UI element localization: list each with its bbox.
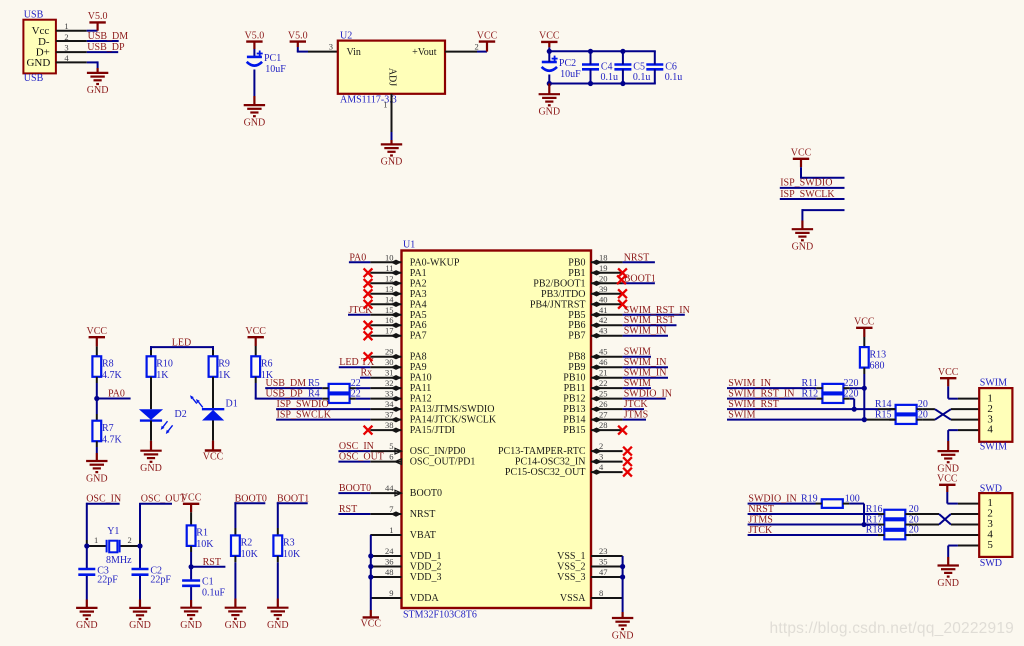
svg-text:PB15: PB15 bbox=[563, 425, 585, 436]
svg-text:RST: RST bbox=[339, 504, 357, 515]
ground (ISP) bbox=[792, 229, 814, 252]
svg-text:10: 10 bbox=[385, 252, 394, 262]
svg-text:USB_DM: USB_DM bbox=[88, 31, 129, 42]
resistor R1 10K bbox=[187, 525, 215, 550]
no-ERC mark bbox=[364, 268, 373, 277]
capacitor C4 0.1u bbox=[582, 62, 618, 83]
svg-text:SWIM_RST: SWIM_RST bbox=[624, 315, 675, 326]
junction bbox=[588, 49, 593, 54]
resistor R11 220 bbox=[802, 378, 859, 393]
no-ERC mark bbox=[364, 300, 373, 309]
svg-text:34: 34 bbox=[385, 399, 394, 409]
wire top rail bbox=[548, 50, 656, 52]
svg-text:GND: GND bbox=[612, 630, 634, 641]
svg-text:USB_DP: USB_DP bbox=[87, 42, 125, 53]
U1 pin 10 (PA0-WKUP) bbox=[370, 252, 460, 268]
net JTCK (to R18) bbox=[748, 525, 879, 536]
svg-text:VCC: VCC bbox=[938, 367, 959, 378]
junction bbox=[620, 81, 625, 86]
svg-text:OSC_OUT/PD1: OSC_OUT/PD1 bbox=[410, 457, 476, 468]
net SWIM_IN bbox=[623, 357, 668, 368]
svg-text:14: 14 bbox=[385, 294, 394, 304]
svg-text:21: 21 bbox=[599, 368, 608, 378]
ground (U1 VSS) bbox=[612, 618, 634, 641]
wire VCC to R1 bbox=[190, 504, 192, 526]
svg-text:PA4: PA4 bbox=[410, 299, 427, 310]
wire rail to R9 bbox=[212, 346, 214, 356]
svg-text:VCC: VCC bbox=[937, 474, 958, 485]
svg-text:4: 4 bbox=[987, 424, 993, 436]
U1 pin 29 (PA8) bbox=[370, 347, 426, 363]
svg-text:SWDIO_IN: SWDIO_IN bbox=[748, 493, 796, 504]
svg-text:JTMS: JTMS bbox=[748, 514, 772, 525]
svg-text:D1: D1 bbox=[226, 399, 238, 410]
U1 pin 37 (PA14/JTCK/SWCLK) bbox=[370, 410, 497, 426]
net SWIM_IN bbox=[623, 368, 668, 379]
net LED (rail) bbox=[150, 337, 214, 348]
svg-text:48: 48 bbox=[385, 567, 394, 577]
svg-text:BOOT0: BOOT0 bbox=[410, 488, 442, 499]
wire VCC stem to rail bbox=[548, 42, 550, 51]
resistor R2 10K bbox=[231, 535, 259, 560]
wire R17 out bbox=[912, 524, 939, 526]
svg-text:VCC: VCC bbox=[181, 493, 202, 504]
wire to SWD pin2 bbox=[951, 513, 979, 515]
junction bbox=[862, 417, 867, 422]
U1 pin 31 (PA10) bbox=[370, 368, 431, 384]
wire crystal pin1 bbox=[87, 545, 107, 547]
U1 pin 42 (PB6) bbox=[568, 315, 622, 331]
wire rail to GND bbox=[548, 84, 550, 95]
svg-text:R17: R17 bbox=[866, 514, 883, 525]
wire V5.0 to U2 pin3 bbox=[297, 42, 338, 52]
U1 pin 38 (PA15/JTDI) bbox=[370, 420, 455, 436]
svg-text:10K: 10K bbox=[241, 549, 259, 560]
svg-text:VDD_1: VDD_1 bbox=[410, 551, 442, 562]
wire C1 to GND bbox=[190, 587, 192, 608]
svg-text:+Vout: +Vout bbox=[412, 47, 437, 58]
svg-text:47: 47 bbox=[599, 567, 608, 577]
ground (C3) bbox=[76, 608, 98, 631]
junction bbox=[861, 522, 866, 527]
svg-text:SWIM: SWIM bbox=[980, 377, 1007, 388]
svg-text:GND: GND bbox=[76, 620, 98, 631]
U1 pin 28 (PB15) bbox=[563, 420, 622, 436]
svg-text:PA6: PA6 bbox=[410, 320, 427, 331]
resistor R14 20 bbox=[875, 399, 928, 414]
svg-text:VCC: VCC bbox=[87, 326, 108, 337]
U1 pin 8 (VSSA) bbox=[560, 588, 623, 604]
ground (USB) bbox=[87, 73, 109, 96]
svg-text:R7: R7 bbox=[102, 423, 114, 434]
wire OSC_OUT down bbox=[139, 503, 141, 546]
svg-text:27: 27 bbox=[599, 410, 608, 420]
ground (SWD) bbox=[937, 566, 959, 589]
svg-text:PA0-WKUP: PA0-WKUP bbox=[410, 257, 460, 268]
svg-text:R16: R16 bbox=[866, 504, 883, 515]
svg-text:VSS_1: VSS_1 bbox=[557, 551, 585, 562]
svg-text:GND: GND bbox=[538, 107, 560, 118]
junction bbox=[189, 564, 194, 569]
U1 pin 33 (PA12) bbox=[370, 389, 431, 405]
svg-text:U2: U2 bbox=[340, 31, 352, 42]
svg-text:32: 32 bbox=[385, 378, 394, 388]
svg-text:C1: C1 bbox=[202, 577, 214, 588]
wire R5 to pin 32 bbox=[356, 387, 370, 389]
svg-text:NRST: NRST bbox=[410, 509, 436, 520]
svg-text:SWIM_IN: SWIM_IN bbox=[624, 326, 667, 337]
power VCC (SWIM) bbox=[938, 367, 959, 378]
power V5.0 (U2 input) bbox=[288, 30, 308, 41]
svg-text:8: 8 bbox=[599, 588, 603, 598]
wire OSC_IN down bbox=[86, 503, 88, 546]
net SWIM_IN bbox=[623, 326, 668, 337]
wire to SWIM pin3 bbox=[951, 419, 979, 421]
wire C5 leads bbox=[622, 51, 624, 83]
connector SWD (5-pin) bbox=[979, 483, 1012, 569]
net ISP_SWDIO (U1) bbox=[276, 399, 370, 410]
svg-text:GND: GND bbox=[129, 620, 151, 631]
svg-text:JTMS: JTMS bbox=[624, 410, 648, 421]
resistor R6 1K bbox=[251, 356, 274, 381]
svg-text:PA15/JTDI: PA15/JTDI bbox=[410, 425, 455, 436]
net JTMS bbox=[623, 410, 649, 421]
wire VCC to R8 bbox=[96, 337, 98, 356]
svg-text:OSC_OUT: OSC_OUT bbox=[339, 452, 384, 463]
svg-text:D2: D2 bbox=[175, 409, 187, 420]
svg-text:USB: USB bbox=[24, 10, 44, 21]
net ISP_SWCLK (U1) bbox=[276, 410, 370, 421]
svg-text:VCC: VCC bbox=[539, 31, 560, 42]
svg-text:SWD: SWD bbox=[980, 558, 1002, 569]
junction bbox=[368, 553, 373, 558]
svg-text:22pF: 22pF bbox=[150, 575, 171, 586]
net RST bbox=[191, 557, 225, 568]
wire to SWIM pin2 bbox=[951, 408, 979, 410]
svg-text:0.1u: 0.1u bbox=[665, 72, 683, 83]
svg-text:2: 2 bbox=[128, 535, 132, 545]
svg-text:R1: R1 bbox=[196, 528, 208, 539]
svg-text:35: 35 bbox=[599, 557, 608, 567]
svg-text:R15: R15 bbox=[875, 409, 892, 420]
svg-text:SWDIO_IN: SWDIO_IN bbox=[624, 389, 672, 400]
svg-text:VSSA: VSSA bbox=[560, 593, 586, 604]
resistor R8 4.7K bbox=[92, 356, 122, 381]
svg-text:43: 43 bbox=[599, 326, 608, 336]
net ISP_SWDIO bbox=[780, 178, 845, 189]
svg-text:PC13-TAMPER-RTC: PC13-TAMPER-RTC bbox=[498, 446, 586, 457]
junction bbox=[620, 49, 625, 54]
junction bbox=[862, 386, 867, 391]
svg-text:PB4/JNTRST: PB4/JNTRST bbox=[530, 299, 586, 310]
svg-text:NRST: NRST bbox=[624, 252, 650, 263]
U1 pin 15 (PA5) bbox=[370, 305, 426, 321]
U1 pin 32 (PA11) bbox=[370, 378, 431, 394]
svg-text:R9: R9 bbox=[218, 359, 230, 370]
svg-text:6: 6 bbox=[389, 452, 393, 462]
svg-text:GND: GND bbox=[244, 117, 266, 128]
svg-text:SWIM: SWIM bbox=[624, 347, 651, 358]
U1 pin 39 (PB3/JTDO) bbox=[541, 284, 623, 300]
wire PC2 top bbox=[548, 51, 550, 62]
ground (D2) bbox=[140, 451, 162, 474]
svg-text:3: 3 bbox=[64, 43, 68, 53]
svg-text:31: 31 bbox=[385, 368, 394, 378]
svg-text:0.1uF: 0.1uF bbox=[202, 587, 226, 598]
svg-text:R6: R6 bbox=[261, 359, 273, 370]
U1 pin 48 (VDD_3) bbox=[370, 567, 441, 583]
U1 pin 23 (VSS_1) bbox=[557, 546, 622, 562]
ground (SWIM) bbox=[937, 451, 959, 474]
wire USB pin4 bbox=[56, 61, 98, 73]
svg-text:PB12: PB12 bbox=[563, 394, 585, 405]
U1 pin 27 (PB14) bbox=[563, 410, 622, 426]
svg-text:10K: 10K bbox=[283, 549, 301, 560]
svg-text:11: 11 bbox=[385, 263, 393, 273]
U1 pin 22 (PB11) bbox=[564, 378, 623, 394]
net PA0 bbox=[349, 252, 370, 263]
wire BOOT0 to R2 bbox=[234, 502, 236, 535]
junction bbox=[620, 574, 625, 579]
wire D1 to VCC bbox=[212, 421, 214, 451]
U1 pin 21 (PB10) bbox=[563, 368, 622, 384]
crystal Y1 8MHz bbox=[94, 526, 132, 566]
svg-text:23: 23 bbox=[599, 546, 608, 556]
no-ERC mark bbox=[364, 331, 373, 340]
wire R15 out bbox=[923, 419, 935, 421]
ground (cap bank) bbox=[538, 94, 560, 117]
svg-text:V5.0: V5.0 bbox=[288, 30, 308, 41]
svg-text:R14: R14 bbox=[875, 399, 892, 410]
svg-text:1: 1 bbox=[383, 100, 387, 110]
wire R18 to SWD pin4 bbox=[912, 534, 980, 536]
svg-text:VDDA: VDDA bbox=[410, 593, 440, 604]
svg-text:GND: GND bbox=[937, 578, 959, 589]
svg-text:SWIM_RST: SWIM_RST bbox=[728, 399, 779, 410]
power VCC (D1) bbox=[203, 451, 224, 463]
capacitor C2 22pF bbox=[132, 566, 172, 586]
svg-text:46: 46 bbox=[599, 357, 608, 367]
wire R10 to D2 bbox=[150, 377, 152, 409]
svg-text:37: 37 bbox=[385, 410, 394, 420]
wire to C2 bbox=[139, 546, 141, 569]
svg-text:V5.0: V5.0 bbox=[245, 30, 265, 41]
net SWIM_IN (to R11) bbox=[727, 378, 816, 389]
svg-text:8MHz: 8MHz bbox=[106, 555, 132, 566]
svg-text:10uF: 10uF bbox=[560, 69, 581, 80]
svg-text:PA3: PA3 bbox=[410, 289, 427, 300]
net SWIM_RST_IN bbox=[623, 305, 690, 316]
junction bbox=[84, 543, 89, 548]
U1 pin 47 (VSS_3) bbox=[557, 567, 622, 583]
svg-text:R12: R12 bbox=[802, 388, 819, 399]
svg-text:PB7: PB7 bbox=[568, 331, 585, 342]
svg-text:BOOT0: BOOT0 bbox=[339, 483, 371, 494]
svg-text:ADJ: ADJ bbox=[387, 68, 398, 86]
svg-text:STM32F103C8T6: STM32F103C8T6 bbox=[403, 609, 477, 620]
junction bbox=[620, 564, 625, 569]
wire USB pin1 bbox=[56, 30, 98, 32]
svg-text:GND: GND bbox=[87, 85, 109, 96]
svg-text:PA5: PA5 bbox=[410, 310, 427, 321]
power VCC (R1) bbox=[181, 493, 202, 504]
svg-text:GND: GND bbox=[86, 473, 108, 484]
connector SWIM (4-pin) bbox=[979, 377, 1012, 452]
svg-text:20: 20 bbox=[599, 273, 608, 283]
U1 pin 25 (PB12) bbox=[563, 389, 622, 405]
svg-text:R3: R3 bbox=[283, 538, 295, 549]
no-ERC mark bbox=[623, 457, 632, 466]
junction bbox=[94, 396, 99, 401]
U1 pin 46 (PB9) bbox=[568, 357, 622, 373]
svg-text:1: 1 bbox=[389, 525, 393, 535]
wire BOOT1 to R3 bbox=[277, 502, 279, 535]
svg-text:PB10: PB10 bbox=[563, 373, 585, 384]
svg-text:OSC_IN/PD0: OSC_IN/PD0 bbox=[410, 446, 466, 457]
wire junction to R7 bbox=[96, 399, 98, 421]
U1 pin 43 (PB7) bbox=[568, 326, 622, 342]
svg-text:22pF: 22pF bbox=[97, 575, 118, 586]
wire ISP GND branch bbox=[802, 209, 844, 229]
ground (U2) bbox=[381, 144, 403, 167]
net SWIM_RST (to R14) bbox=[727, 399, 896, 410]
net OSC_OUT (crystal) bbox=[141, 494, 186, 505]
connector USB (4-pin) bbox=[23, 10, 69, 85]
svg-text:SWIM_IN: SWIM_IN bbox=[624, 368, 667, 379]
svg-text:GND: GND bbox=[267, 620, 289, 631]
resistor R18 20 bbox=[866, 525, 919, 540]
U1 pin 5 (OSC_IN/PD0) bbox=[370, 441, 465, 457]
svg-text:0.1u: 0.1u bbox=[601, 72, 619, 83]
U1 pin 3 (PC14-OSC32_IN) bbox=[515, 452, 623, 468]
svg-text:9: 9 bbox=[389, 588, 393, 598]
resistor R13 680 bbox=[860, 347, 886, 372]
svg-text:JTCK: JTCK bbox=[624, 399, 649, 410]
svg-text:39: 39 bbox=[599, 284, 608, 294]
wire R16 out bbox=[912, 513, 939, 515]
net OSC_OUT bbox=[338, 452, 384, 463]
svg-text:R18: R18 bbox=[866, 525, 883, 536]
svg-text:U1: U1 bbox=[403, 240, 415, 251]
svg-text:12: 12 bbox=[385, 273, 394, 283]
junction bbox=[852, 407, 857, 412]
resistor R12 220 bbox=[802, 388, 859, 403]
wire VSS rail bbox=[622, 556, 624, 618]
svg-text:PC2: PC2 bbox=[559, 58, 576, 69]
junction bbox=[368, 574, 373, 579]
resistor R9 1K bbox=[209, 356, 232, 381]
no-ERC mark bbox=[618, 268, 627, 277]
LED D2 bbox=[139, 409, 187, 434]
svg-text:PB6: PB6 bbox=[568, 320, 585, 331]
wire V5.0 to PC1 bbox=[253, 42, 255, 57]
svg-text:PA14/JTCK/SWCLK: PA14/JTCK/SWCLK bbox=[410, 415, 497, 426]
junction bbox=[588, 81, 593, 86]
wire VCC to SWIM pin1 bbox=[948, 378, 979, 398]
net NRST (to R16) bbox=[748, 504, 879, 515]
svg-text:PB11: PB11 bbox=[564, 383, 586, 394]
svg-text:R8: R8 bbox=[102, 359, 114, 370]
U1 pin 9 (VDDA) bbox=[370, 588, 439, 604]
svg-text:3: 3 bbox=[329, 42, 333, 52]
svg-text:OSC_IN: OSC_IN bbox=[339, 441, 374, 452]
no-ERC mark bbox=[618, 289, 627, 298]
svg-text:Vin: Vin bbox=[347, 47, 361, 58]
U1 pin 7 (NRST) bbox=[370, 504, 435, 520]
svg-text:SWIM_RST_IN: SWIM_RST_IN bbox=[728, 388, 794, 399]
svg-text:5: 5 bbox=[389, 441, 393, 451]
capacitor C6 0.1u bbox=[646, 62, 682, 83]
svg-text:R10: R10 bbox=[156, 359, 173, 370]
ground (PC1) bbox=[244, 105, 266, 128]
svg-text:PC15-OSC32_OUT: PC15-OSC32_OUT bbox=[505, 467, 586, 478]
svg-text:PA0: PA0 bbox=[108, 388, 125, 399]
svg-text:41: 41 bbox=[599, 305, 608, 315]
svg-text:PA9: PA9 bbox=[410, 362, 427, 373]
svg-text:RST: RST bbox=[203, 557, 221, 568]
U1 pin 1 (VBAT) bbox=[370, 525, 436, 541]
wire R4 to pin 33 bbox=[356, 398, 370, 400]
svg-text:PA12: PA12 bbox=[410, 394, 432, 405]
no-ERC mark bbox=[364, 289, 373, 298]
svg-text:33: 33 bbox=[385, 389, 394, 399]
svg-text:USB_DP: USB_DP bbox=[266, 389, 304, 400]
net JTMS (to R17) bbox=[748, 514, 879, 525]
U1 pin 6 (OSC_OUT/PD1) bbox=[370, 452, 475, 468]
svg-text:40: 40 bbox=[599, 294, 608, 304]
svg-text:680: 680 bbox=[870, 361, 885, 372]
wire R14 out bbox=[923, 408, 935, 410]
svg-text:GND: GND bbox=[180, 620, 202, 631]
U1 pin 17 (PA7) bbox=[370, 326, 426, 342]
wire SWD pin5 to GND bbox=[948, 546, 979, 566]
power VCC (R13) bbox=[854, 317, 875, 328]
wire C2 to GND bbox=[139, 576, 141, 608]
net SWDIO_IN bbox=[623, 389, 672, 400]
svg-text:GND: GND bbox=[381, 157, 403, 168]
wire R9 to D1 bbox=[212, 377, 214, 409]
svg-text:SWD: SWD bbox=[980, 483, 1002, 494]
no-ERC mark bbox=[364, 352, 373, 361]
svg-text:VCC: VCC bbox=[361, 619, 382, 630]
svg-text:SWIM: SWIM bbox=[624, 378, 651, 389]
net SWIM bbox=[623, 347, 651, 358]
wire crossover bbox=[935, 409, 951, 419]
svg-text:PB3/JTDO: PB3/JTDO bbox=[541, 289, 585, 300]
svg-text:https://blog.csdn.net/qq_20222: https://blog.csdn.net/qq_20222919 bbox=[770, 620, 1014, 637]
svg-text:GND: GND bbox=[792, 242, 814, 253]
svg-text:44: 44 bbox=[385, 483, 394, 493]
resistor R17 20 bbox=[866, 514, 919, 529]
wire PC2 bottom bbox=[548, 75, 550, 84]
svg-text:R5: R5 bbox=[308, 378, 320, 389]
wire C3 to GND bbox=[86, 576, 88, 608]
svg-text:VCC: VCC bbox=[203, 452, 224, 463]
U1 pin 11 (PA1) bbox=[370, 263, 426, 279]
U1 pin 20 (PB2/BOOT1) bbox=[533, 273, 622, 289]
svg-text:VDD_3: VDD_3 bbox=[410, 572, 442, 583]
svg-text:R19: R19 bbox=[801, 493, 818, 504]
net NRST bbox=[623, 252, 655, 263]
svg-text:PC1: PC1 bbox=[264, 53, 281, 64]
svg-text:PA0: PA0 bbox=[349, 252, 366, 263]
svg-text:PA8: PA8 bbox=[410, 352, 427, 363]
no-ERC mark bbox=[623, 468, 632, 477]
no-ERC mark bbox=[364, 426, 373, 435]
net JTCK bbox=[348, 305, 373, 316]
svg-text:R11: R11 bbox=[802, 378, 818, 389]
U1 pin 13 (PA3) bbox=[370, 284, 426, 300]
